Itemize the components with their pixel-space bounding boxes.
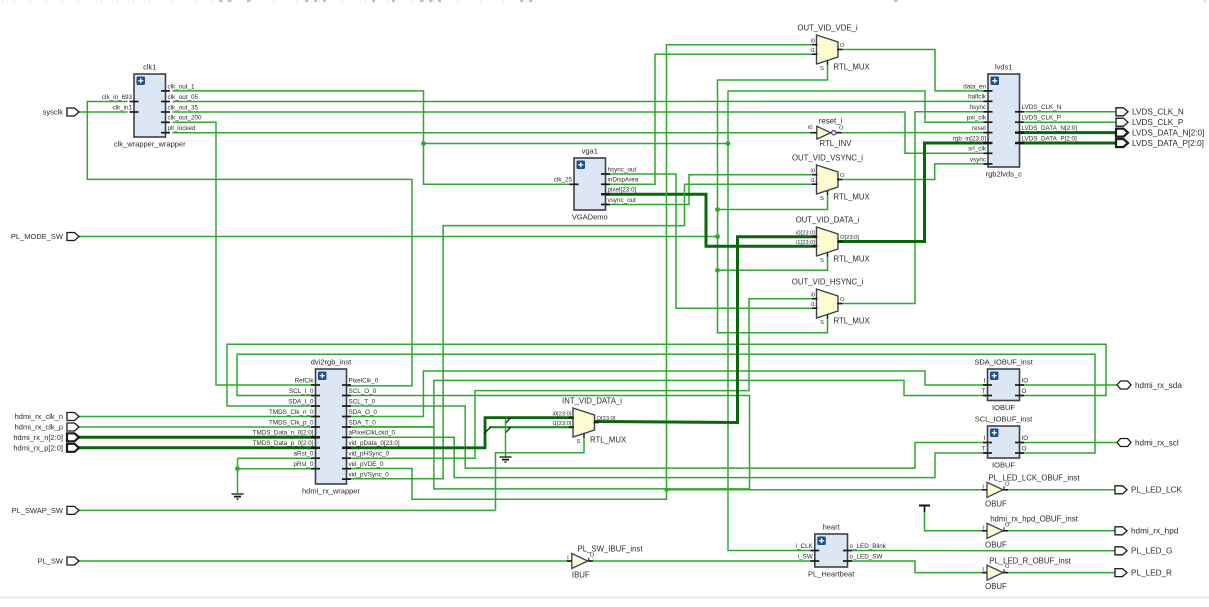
svg-text:vsync: vsync	[970, 156, 986, 163]
port PL_LED_G	[1115, 547, 1172, 556]
svg-text:IO: IO	[1022, 377, 1029, 384]
svg-text:RTL_MUX: RTL_MUX	[834, 255, 871, 264]
port PL_MODE_SW	[11, 232, 79, 241]
junction select DATA	[715, 268, 720, 273]
svg-text:I: I	[984, 377, 986, 384]
svg-text:LVDS_DATA_P[2:0]: LVDS_DATA_P[2:0]	[1022, 135, 1078, 142]
svg-text:PL_Heartbeat: PL_Heartbeat	[808, 570, 855, 579]
svg-text:heart: heart	[823, 523, 841, 532]
svg-text:LVDS_CLK_P: LVDS_CLK_P	[1022, 115, 1061, 122]
svg-text:O: O	[1022, 445, 1027, 452]
svg-text:LVDS_CLK_N: LVDS_CLK_N	[1132, 108, 1184, 117]
svg-text:reset_i: reset_i	[819, 116, 843, 125]
svg-text:clk_in_693: clk_in_693	[102, 94, 133, 101]
svg-text:i_CLK: i_CLK	[796, 543, 814, 550]
svg-text:LVDS_DATA_N[2:0]: LVDS_DATA_N[2:0]	[1022, 125, 1078, 132]
svg-text:O: O	[840, 43, 845, 49]
svg-text:OUT_VID_VSYNC_i: OUT_VID_VSYNC_i	[792, 154, 863, 163]
wire vid_pHSync_0 to OUT_VID_HSYNC_i i0	[347, 299, 817, 459]
block heart PL_Heartbeat	[796, 523, 887, 579]
wire inDispArea to OUT_VID_VDE_i i1	[606, 54, 817, 184]
svg-text:T: T	[982, 388, 986, 395]
svg-text:sysclk: sysclk	[43, 108, 64, 117]
port hdmi_rx_n	[13, 433, 79, 442]
svg-text:O: O	[1005, 522, 1010, 528]
svg-text:reset: reset	[972, 125, 986, 132]
svg-text:pxl_clk: pxl_clk	[967, 115, 987, 122]
wire aPixelClkLckd_0 to SCL_IOBUF T	[347, 437, 988, 477]
svg-text:i_SW: i_SW	[798, 553, 813, 560]
bus join ramps	[485, 418, 511, 433]
block clk1 clk_wrapper_wrapper	[102, 63, 202, 149]
port hdmi_rx_scl	[1117, 438, 1179, 447]
bottom edge line	[0, 597, 1209, 599]
svg-text:OUT_VID_VDE_i: OUT_VID_VDE_i	[797, 24, 857, 33]
wire clk_out_200 to dvi2rgb RefClk	[173, 122, 316, 385]
wire SDA_O_0 to SDA_IOBUF I	[347, 371, 988, 417]
wire pll_locked to reset_i input	[173, 132, 818, 134]
port hdmi_rx_sda	[1117, 381, 1182, 390]
svg-text:PL_MODE_SW: PL_MODE_SW	[11, 232, 64, 241]
svg-text:PixelClk_0: PixelClk_0	[349, 377, 379, 384]
port PL_LED_R	[1115, 568, 1172, 577]
svg-text:RTL_INV: RTL_INV	[820, 139, 853, 148]
bus INT_VID_DATA O to OUT_VID_DATA i0	[595, 237, 817, 423]
svg-text:VGADemo: VGADemo	[572, 213, 608, 222]
svg-text:RefClk: RefClk	[295, 377, 315, 384]
svg-text:hdmi_rx_hpd_OBUF_inst: hdmi_rx_hpd_OBUF_inst	[990, 515, 1078, 524]
svg-text:S: S	[820, 196, 824, 202]
svg-text:i1: i1	[810, 178, 815, 184]
svg-text:o_LED_SW: o_LED_SW	[850, 553, 883, 560]
svg-text:O: O	[1005, 481, 1010, 487]
svg-text:SDA_IOBUF_inst: SDA_IOBUF_inst	[974, 358, 1033, 367]
svg-text:clk_out_200: clk_out_200	[168, 115, 202, 122]
wire OUT_VID_VSYNC O to lvds1 vsync	[838, 164, 988, 180]
wire VCC to hdmi_rx_hpd_OBUF input	[925, 507, 988, 531]
wire o_LED_SW to PL_LED_R_OBUF	[848, 561, 988, 573]
svg-text:SDA_T_0: SDA_T_0	[349, 419, 377, 426]
svg-text:IOBUF: IOBUF	[992, 461, 1015, 470]
svg-text:LVDS_CLK_P: LVDS_CLK_P	[1132, 118, 1184, 127]
svg-text:TMDS_Clk_p_0: TMDS_Clk_p_0	[269, 419, 314, 426]
wire IBUF out to heart i_SW	[589, 560, 815, 562]
port PL_SWAP_SW	[12, 506, 79, 515]
wire clk_out_1 down to heart i_CLK	[728, 144, 815, 551]
wire clk_out_1 to lvds1 pxl_clk	[728, 91, 988, 144]
svg-text:SCL_T_0: SCL_T_0	[349, 398, 376, 405]
wire PL_MODE_SW	[79, 236, 718, 238]
bus vid_pData_0[23:0] to INT mux i0	[347, 418, 574, 448]
svg-text:O: O	[1022, 388, 1027, 395]
svg-text:pRst_0: pRst_0	[294, 461, 314, 468]
svg-text:vid_pVSync_0: vid_pVSync_0	[349, 472, 390, 479]
svg-text:vsync_out: vsync_out	[608, 197, 637, 204]
wire ground to INT mux inputs	[505, 419, 507, 457]
svg-text:i0: i0	[808, 125, 813, 131]
wire sysclk to clk_in1	[79, 111, 128, 113]
svg-text:srl_clk: srl_clk	[968, 146, 987, 153]
svg-text:rgb_in[23:0]: rgb_in[23:0]	[953, 135, 987, 142]
svg-text:INT_VID_DATA_i: INT_VID_DATA_i	[562, 397, 622, 406]
svg-text:hdmi_rx_scl: hdmi_rx_scl	[1135, 438, 1179, 447]
wire ground trunk dvi2rgb	[237, 458, 239, 493]
svg-text:RTL_MUX: RTL_MUX	[834, 63, 871, 72]
svg-text:PL_LED_LCK: PL_LED_LCK	[1131, 486, 1183, 495]
svg-text:TMDS_Data_p_0[2:0]: TMDS_Data_p_0[2:0]	[253, 440, 314, 447]
svg-text:S: S	[577, 439, 581, 445]
wire PixelClk_0 feedback to clk_in_693	[87, 102, 412, 386]
port LVDS_CLK_P	[1116, 118, 1184, 127]
wire SDA_T_0 stub	[347, 426, 434, 428]
wire hdmi_rx_clk_n to TMDS_Clk_n_0	[79, 416, 316, 418]
svg-text:halfclk: halfclk	[968, 94, 987, 101]
svg-text:pixel[23:0]: pixel[23:0]	[608, 187, 637, 194]
wire reset_i output to lvds1 reset	[838, 132, 989, 134]
svg-text:i0: i0	[810, 168, 815, 174]
wire SCL IO to hdmi_rx_scl	[1020, 442, 1118, 444]
svg-text:i0[23:0]: i0[23:0]	[796, 230, 815, 236]
svg-text:OUT_VID_HSYNC_i: OUT_VID_HSYNC_i	[792, 278, 864, 287]
svg-text:clk_out_35: clk_out_35	[168, 104, 199, 111]
junction vid_pVDE branch	[665, 488, 669, 492]
block lvds1 rgb2lvds_c	[953, 63, 1078, 179]
svg-text:vid_pData_0[23:0]: vid_pData_0[23:0]	[349, 440, 400, 447]
bus LVDS_DATA_P out	[1020, 142, 1117, 145]
svg-text:vid_pVDE_0: vid_pVDE_0	[349, 461, 385, 468]
svg-text:LVDS_DATA_N[2:0]: LVDS_DATA_N[2:0]	[1132, 128, 1204, 137]
mux OUT_VID_HSYNC_i RTL_MUX	[792, 278, 871, 327]
toolbar sliver (cut-off icons)	[2, 0, 1207, 3]
wire PL_SWAP_SW	[79, 509, 496, 511]
port hdmi_rx_p	[13, 444, 79, 453]
svg-text:RTL_MUX: RTL_MUX	[834, 317, 871, 326]
port hdmi_rx_hpd	[1115, 527, 1179, 536]
svg-text:i1[23:0]: i1[23:0]	[796, 240, 815, 246]
svg-text:LVDS_CLK_N: LVDS_CLK_N	[1022, 104, 1062, 111]
svg-text:clk_out_1: clk_out_1	[168, 83, 195, 90]
wire PL_SW to IBUF	[79, 560, 572, 562]
svg-text:PL_SW: PL_SW	[38, 557, 64, 566]
svg-text:rgb2lvds_c: rgb2lvds_c	[986, 170, 1023, 179]
port hdmi_rx_clk_n	[15, 412, 79, 421]
svg-text:TMDS_Clk_n_0: TMDS_Clk_n_0	[269, 409, 314, 416]
svg-text:clk_in1: clk_in1	[112, 104, 132, 111]
svg-text:clk_25: clk_25	[554, 177, 573, 184]
svg-text:SDA_O_0: SDA_O_0	[349, 409, 378, 416]
mux OUT_VID_VDE_i RTL_MUX	[797, 24, 870, 73]
buffer PL_LED_R_OBUF_inst OBUF	[982, 557, 1072, 592]
svg-text:PL_LED_G: PL_LED_G	[1131, 547, 1172, 556]
block dvi2rgb_inst hdmi_rx_wrapper	[253, 358, 400, 496]
wire PL_LED_LCK_OBUF out	[1003, 489, 1115, 491]
svg-text:OBUF: OBUF	[985, 582, 1007, 591]
svg-text:O[23:0]: O[23:0]	[840, 235, 859, 241]
junction clk_out_1 branch	[421, 141, 426, 146]
junction clk_out_1 trunk	[726, 141, 731, 146]
svg-text:OBUF: OBUF	[985, 499, 1007, 508]
svg-text:vga1: vga1	[582, 147, 598, 156]
svg-text:i0: i0	[810, 292, 815, 298]
port PL_LED_LCK	[1115, 486, 1183, 495]
svg-text:O: O	[1005, 564, 1010, 570]
svg-text:PL_LED_R: PL_LED_R	[1131, 568, 1172, 577]
svg-text:RTL_MUX: RTL_MUX	[834, 193, 871, 202]
wire SDA_T_0 to SDA_IOBUF T	[434, 380, 988, 427]
mux INT_VID_DATA_i RTL_MUX	[552, 397, 627, 446]
wire SDA IO to hdmi_rx_sda	[1020, 384, 1118, 386]
svg-text:IBUF: IBUF	[572, 571, 590, 580]
wire INT mux S down	[496, 434, 585, 511]
svg-text:hdmi_rx_sda: hdmi_rx_sda	[1135, 381, 1182, 390]
svg-text:O: O	[590, 553, 595, 559]
svg-text:clk_wrapper_wrapper: clk_wrapper_wrapper	[114, 140, 186, 149]
wire LVDS_CLK_N out	[1020, 111, 1117, 113]
junction select MODE_SW	[715, 234, 720, 239]
svg-text:O: O	[840, 173, 845, 179]
svg-text:S: S	[820, 258, 824, 264]
wire LVDS_CLK_P out	[1020, 121, 1117, 123]
svg-text:SDA_I_0: SDA_I_0	[288, 398, 314, 405]
wire aRst_0 from ground	[238, 457, 316, 459]
svg-text:aRst_0: aRst_0	[294, 451, 314, 458]
wire vid_pVDE branch to PL_LED_LCK_OBUF input	[667, 489, 988, 491]
svg-text:i0: i0	[810, 38, 815, 44]
junction select VSYNC	[715, 207, 720, 212]
svg-text:vid_pHSync_0: vid_pHSync_0	[349, 451, 390, 458]
wire hdmi_rx_clk_p to TMDS_Clk_p_0	[79, 426, 316, 428]
wire pRst_0 from ground	[238, 468, 316, 470]
wire select branch to OUT_VID_VSYNC_i S	[718, 191, 828, 210]
svg-text:aPixelClkLckd_0: aPixelClkLckd_0	[349, 430, 396, 437]
svg-text:O: O	[839, 126, 844, 132]
svg-text:SCL_IOBUF_inst: SCL_IOBUF_inst	[975, 415, 1033, 424]
svg-text:PL_LED_R_OBUF_inst: PL_LED_R_OBUF_inst	[989, 557, 1071, 566]
wire SCL_T_0 to SCL_IOBUF I	[347, 406, 988, 468]
wire select branch to OUT_VID_DATA_i S	[718, 250, 828, 271]
mux OUT_VID_VSYNC_i RTL_MUX	[792, 154, 871, 203]
wire hdmi_rx_hpd_OBUF out	[1003, 530, 1115, 532]
wire PL_LED_R_OBUF out	[1003, 572, 1115, 574]
wire SCL_IOBUF O return to SCL_I_0	[237, 354, 1095, 453]
ground at dvi2rgb pRst	[232, 494, 244, 499]
svg-text:hsync_out: hsync_out	[608, 166, 637, 173]
wire hsync_out to OUT_VID_HSYNC_i i1	[606, 174, 817, 308]
ground at INT_VID_DATA_i	[500, 457, 512, 462]
svg-text:PL_SWAP_SW: PL_SWAP_SW	[12, 506, 64, 515]
svg-text:RTL_MUX: RTL_MUX	[590, 436, 627, 445]
bus INT mux i1 input	[489, 426, 573, 428]
svg-text:lvds1: lvds1	[995, 63, 1013, 72]
svg-text:O: O	[840, 297, 845, 303]
buffer PL_SW_IBUF_inst IBUF	[567, 545, 644, 580]
svg-text:S: S	[820, 66, 824, 72]
svg-text:SCL_I_0: SCL_I_0	[289, 388, 314, 395]
junction pRst ground	[235, 466, 240, 471]
bus LVDS_DATA_N out	[1020, 131, 1117, 134]
svg-text:i1: i1	[810, 302, 815, 308]
buffer PL_LED_LCK_OBUF_inst OBUF	[982, 474, 1080, 509]
wire vid_pVDE_0 to OUT_VID_VDE_i i0	[347, 45, 817, 500]
wire clk_out_1 branch at y=143.5	[424, 143, 729, 145]
svg-text:o_LED_Blink: o_LED_Blink	[850, 543, 887, 550]
port hdmi_rx_clk_p	[15, 423, 79, 432]
svg-text:hdmi_rx_clk_n: hdmi_rx_clk_n	[15, 412, 63, 421]
mux OUT_VID_DATA_i RTL_MUX	[796, 216, 871, 265]
block SCL_IOBUF_inst IOBUF	[975, 415, 1033, 470]
port LVDS_CLK_N	[1116, 108, 1184, 117]
svg-text:TMDS_Data_n_0[2:0]: TMDS_Data_n_0[2:0]	[253, 430, 314, 437]
port LVDS_DATA_P	[1116, 139, 1204, 148]
svg-text:hdmi_rx_n[2:0]: hdmi_rx_n[2:0]	[13, 433, 63, 442]
wire vid_pVSync_0 to OUT_VID_VSYNC_i i1	[347, 184, 817, 479]
wire clk_out_05 to lvds1 halfclk	[173, 100, 989, 102]
bus pixel[23:0] to OUT_VID_DATA_i i1	[606, 194, 817, 246]
wire vsync_out to OUT_VID_VSYNC_i i0	[606, 175, 817, 205]
block SDA_IOBUF_inst IOBUF	[974, 358, 1033, 413]
block vga1 VGADemo	[554, 147, 639, 222]
svg-text:i1: i1	[810, 48, 815, 54]
wire clk_out_1 to vga1 clk_25	[173, 91, 575, 184]
svg-text:I: I	[984, 435, 986, 442]
svg-text:i1[23:0]: i1[23:0]	[552, 421, 571, 427]
buffer hdmi_rx_hpd_OBUF_inst OBUF	[982, 515, 1079, 550]
wire clk_out_35 to lvds1 srl_clk	[173, 112, 989, 153]
svg-text:T: T	[982, 445, 986, 452]
svg-text:PL_LED_LCK_OBUF_inst: PL_LED_LCK_OBUF_inst	[988, 474, 1080, 483]
svg-text:S: S	[820, 320, 824, 326]
inverter reset_i RTL_INV	[808, 116, 852, 148]
wire o_LED_Blink to PL_LED_G	[848, 550, 1116, 552]
wire OUT_VID_VDE O to lvds1 data_en	[838, 50, 988, 91]
svg-text:O[23:0]: O[23:0]	[597, 416, 616, 422]
svg-text:OBUF: OBUF	[985, 540, 1007, 549]
wire SCL_O_0 loop	[347, 396, 750, 489]
wire OUT_VID_HSYNC O to lvds1 hsync	[838, 112, 988, 304]
svg-text:SCL_O_0: SCL_O_0	[349, 388, 377, 395]
svg-text:PL_SW_IBUF_inst: PL_SW_IBUF_inst	[578, 545, 644, 554]
svg-text:hdmi_rx_clk_p: hdmi_rx_clk_p	[15, 423, 63, 432]
svg-text:hdmi_rx_p[2:0]: hdmi_rx_p[2:0]	[13, 444, 63, 453]
wire select trunk up to OUT_VID_VDE_i S	[718, 61, 828, 237]
svg-text:LVDS_DATA_P[2:0]: LVDS_DATA_P[2:0]	[1132, 139, 1204, 148]
svg-text:pll_locked: pll_locked	[168, 125, 197, 132]
port sysclk	[43, 108, 79, 117]
port PL_SW	[38, 557, 79, 566]
bus hdmi_rx_p to TMDS_Data_p_0	[79, 446, 316, 449]
svg-text:IOBUF: IOBUF	[992, 403, 1015, 412]
svg-text:clk1: clk1	[143, 63, 156, 72]
svg-text:i0[23:0]: i0[23:0]	[552, 411, 571, 417]
wire select trunk down to OUT_VID_HSYNC_i S	[718, 237, 828, 333]
power VCC for hdmi_rx_hpd	[919, 506, 930, 513]
svg-text:IO: IO	[1022, 435, 1029, 442]
wire SDA_IOBUF O return to SDA_I_0	[227, 344, 1106, 406]
svg-text:hdmi_rx_wrapper: hdmi_rx_wrapper	[302, 487, 360, 496]
svg-text:OUT_VID_DATA_i: OUT_VID_DATA_i	[796, 216, 860, 225]
port LVDS_DATA_N	[1116, 128, 1204, 137]
svg-text:inDispArea: inDispArea	[608, 177, 639, 184]
svg-text:hdmi_rx_hpd: hdmi_rx_hpd	[1131, 527, 1179, 536]
bus hdmi_rx_n to TMDS_Data_n_0	[79, 436, 316, 439]
svg-text:data_en: data_en	[963, 83, 986, 90]
svg-text:hsync: hsync	[970, 104, 986, 111]
svg-text:clk_out_05: clk_out_05	[168, 94, 199, 101]
bus OUT_VID_DATA O to lvds1 rgb_in	[838, 143, 988, 242]
svg-text:dvi2rgb_inst: dvi2rgb_inst	[311, 358, 352, 367]
